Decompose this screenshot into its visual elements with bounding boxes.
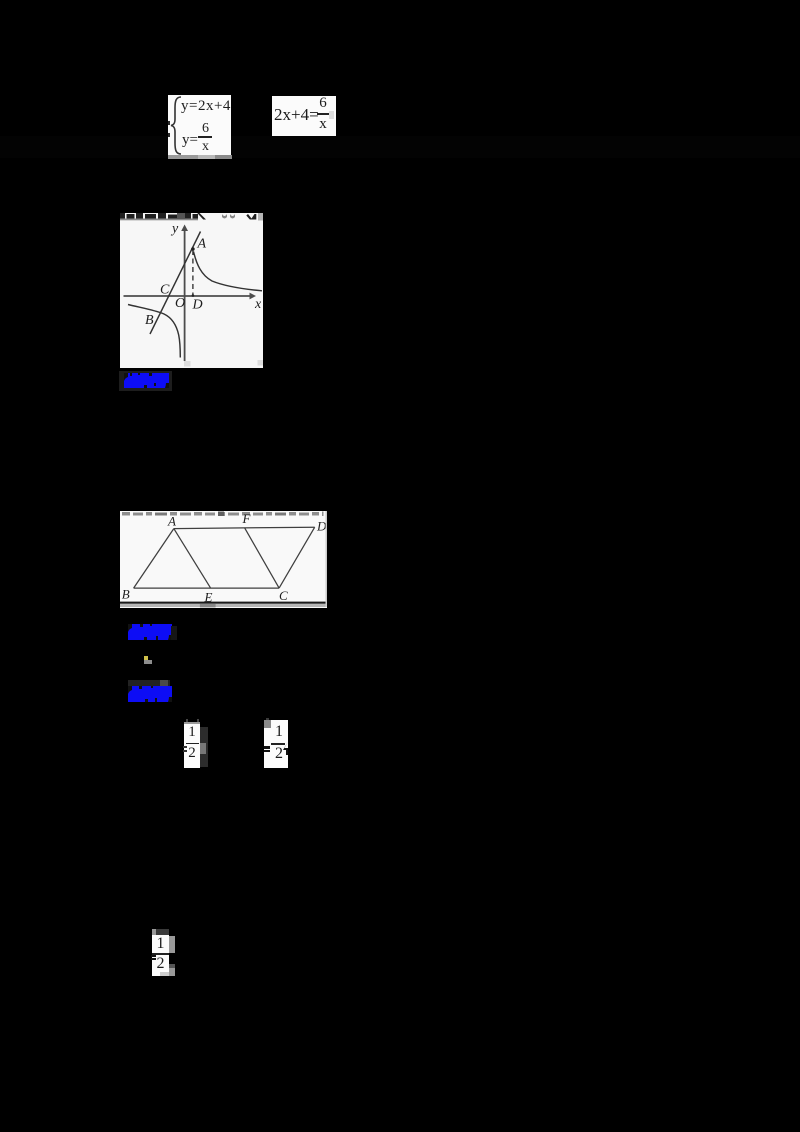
svg-text:A: A — [167, 514, 176, 529]
svg-text:B: B — [145, 313, 154, 328]
svg-text:C: C — [279, 588, 288, 603]
svg-text:y: y — [170, 222, 179, 237]
svg-text:C: C — [160, 283, 170, 298]
svg-text:x: x — [254, 297, 262, 312]
svg-text:D: D — [316, 519, 327, 534]
svg-text:O: O — [175, 296, 185, 311]
svg-text:A: A — [197, 237, 207, 252]
svg-text:B: B — [122, 587, 130, 602]
svg-text:F: F — [242, 511, 252, 526]
svg-text:D: D — [192, 298, 203, 313]
